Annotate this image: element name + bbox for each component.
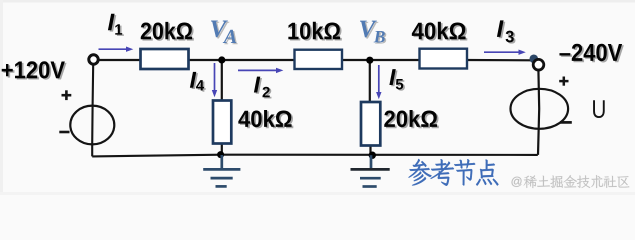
label 10kΩ [288,22,341,41]
node B junction dot [366,57,373,64]
current arrow I2 [238,68,283,73]
current arrow I5 downward [376,65,381,99]
wire: node A to 40k vertical resistor [221,60,223,101]
voltage source U ellipse [511,89,569,129]
wire: 10k resistor to 40k resistor through node B [342,59,420,61]
wire: 40k vertical resistor to bottom wire [221,144,223,156]
label 20kΩ vertical resistor [384,110,439,128]
wire: bottom reference-node wire [92,155,538,157]
resistor 40kΩ vertical [213,101,231,144]
label 参考节点 reference node [408,159,498,186]
resistor 20kΩ vertical [361,102,380,146]
resistor 40kΩ horizontal [420,49,468,69]
label -240V [559,44,623,63]
resistor 20kΩ horizontal [141,49,189,69]
junction dot: bottom wire below 20k resistor [369,152,376,159]
wire: 20k resistor to 10k resistor through node A [188,59,295,61]
wire: node B to 20k vertical resistor [369,60,371,102]
U source plus sign [559,77,568,86]
node: right terminal shadow dot [530,55,539,64]
node label V_A [211,21,238,45]
label I2 [254,77,272,99]
label I1 [108,14,124,36]
node A junction dot [218,56,225,63]
wire: left source branch vertical [92,64,93,157]
voltage source +120V circle [70,106,114,145]
U source minus sign [560,121,572,124]
watermark @稀土掘金技术社区 [512,175,630,188]
label I3 [497,20,516,43]
wire: top wire, left node to 20k resistor [98,59,141,61]
junction dot: bottom wire below 40k resistor [217,151,224,158]
label 40kΩ vertical resistor [238,110,293,128]
wire: right source branch vertical [538,69,539,154]
ground symbol left [203,155,240,186]
label 20kΩ top [141,22,194,41]
+120V source plus sign [62,90,72,100]
current arrow I3 [484,50,526,55]
label +120V [2,61,67,79]
node: left input terminal open circle [89,55,98,64]
current arrow I4 downward [212,63,217,97]
label 40kΩ top [412,22,467,41]
ground symbol right [351,155,390,186]
wire: 20k vertical resistor to bottom wire [369,146,371,156]
node label V_B [360,21,386,44]
label U source voltage [593,100,605,118]
label I4 [190,72,206,92]
label I5 [389,69,405,91]
resistor 10kΩ horizontal [295,50,343,69]
current arrow I1 [99,47,134,52]
node: right terminal open circle [533,59,544,70]
+120V source minus sign [59,131,69,134]
wire: 40k resistor to right node [467,59,533,61]
